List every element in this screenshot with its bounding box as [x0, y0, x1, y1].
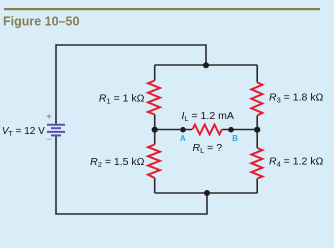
svg-text:RL = ?: RL = ? — [193, 142, 223, 155]
svg-text:−: − — [46, 135, 52, 146]
svg-text:+: + — [46, 112, 52, 123]
svg-text:A: A — [180, 134, 186, 143]
svg-text:VT = 12 V: VT = 12 V — [2, 126, 45, 138]
svg-text:B: B — [232, 134, 238, 143]
svg-text:R1 = 1 kΩ: R1 = 1 kΩ — [99, 93, 145, 106]
svg-text:IL = 1.2 mA: IL = 1.2 mA — [182, 110, 234, 123]
svg-text:Figure 10–50: Figure 10–50 — [3, 15, 79, 29]
